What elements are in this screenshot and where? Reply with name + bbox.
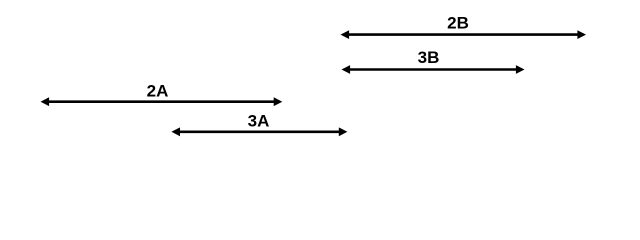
arrow 2A [41, 97, 283, 106]
svg-text:3B: 3B [418, 48, 440, 67]
svg-text:2B: 2B [447, 14, 469, 33]
arrow 3A [171, 127, 347, 136]
arrow 2B [341, 30, 587, 39]
svg-text:3A: 3A [248, 111, 270, 130]
svg-text:2A: 2A [147, 81, 169, 100]
arrow 3B [342, 65, 525, 74]
